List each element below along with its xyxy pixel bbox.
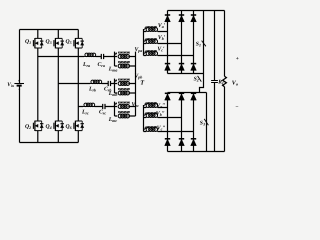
svg-text:Vb″: Vb″ bbox=[156, 111, 165, 117]
svg-text:Va″: Va″ bbox=[156, 103, 165, 109]
svg-text:S3: S3 bbox=[200, 121, 205, 127]
svg-text:Q6: Q6 bbox=[66, 124, 72, 130]
svg-text:+: + bbox=[18, 79, 20, 83]
svg-text:S2: S2 bbox=[194, 77, 199, 83]
svg-text:Vc″: Vc″ bbox=[157, 125, 166, 131]
svg-text:Q5: Q5 bbox=[66, 39, 72, 45]
svg-text:−: − bbox=[18, 87, 21, 92]
svg-text:S1: S1 bbox=[196, 41, 201, 47]
svg-text:RL: RL bbox=[217, 79, 225, 85]
svg-text:Q4: Q4 bbox=[46, 124, 52, 130]
svg-text:Vc′: Vc′ bbox=[157, 46, 165, 52]
svg-text:−: − bbox=[235, 105, 238, 111]
svg-text:Cra: Cra bbox=[98, 62, 105, 68]
svg-text:Lrc: Lrc bbox=[81, 109, 89, 115]
svg-text:Vo: Vo bbox=[232, 80, 238, 86]
svg-text:Lma: Lma bbox=[108, 66, 118, 72]
svg-text:Lrb: Lrb bbox=[88, 86, 96, 92]
svg-text:Vpa: Vpa bbox=[135, 47, 143, 53]
svg-text:Va′: Va′ bbox=[158, 23, 166, 29]
svg-text:Vpc: Vpc bbox=[132, 102, 140, 108]
svg-text:Vb′: Vb′ bbox=[158, 35, 166, 41]
svg-text:Lmc: Lmc bbox=[108, 117, 118, 123]
svg-text:Q2: Q2 bbox=[25, 124, 31, 130]
svg-text:Q3: Q3 bbox=[46, 39, 52, 45]
svg-text:Q1: Q1 bbox=[25, 39, 31, 45]
svg-text:Vpb: Vpb bbox=[135, 73, 143, 79]
svg-text:+: + bbox=[236, 56, 239, 62]
svg-text:Lra: Lra bbox=[82, 62, 90, 68]
svg-text:Lmb: Lmb bbox=[108, 91, 118, 97]
svg-text:Crc: Crc bbox=[99, 109, 106, 115]
